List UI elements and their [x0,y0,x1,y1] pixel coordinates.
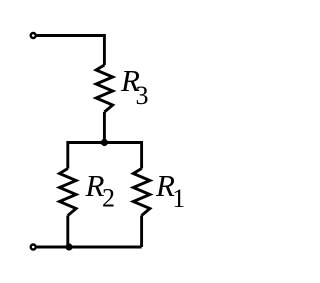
svg-text:2: 2 [102,184,115,213]
svg-text:1: 1 [172,184,185,213]
svg-text:3: 3 [136,81,149,110]
